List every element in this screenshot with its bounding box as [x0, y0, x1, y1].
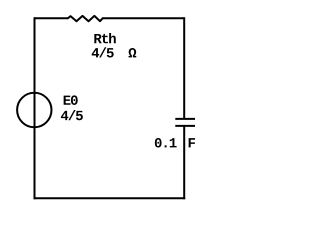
capacitor C top plate	[175, 118, 195, 120]
label E0	[64, 95, 78, 105]
wire bottom (return path)	[34, 197, 186, 199]
wire right upper vertical (capacitor top lead)	[183, 17, 185, 118]
label Rth	[94, 33, 115, 43]
wire left vertical (source branch)	[34, 17, 36, 199]
label 0.1 (capacitor value)	[155, 138, 177, 148]
wire right lower vertical (capacitor bottom lead)	[183, 126, 185, 199]
label 4/5 (source value)	[61, 110, 83, 120]
label F (capacitor unit)	[189, 138, 195, 147]
wire top-left segment (from source branch to Rth)	[35, 17, 69, 19]
voltage source E0	[17, 93, 51, 127]
wire top-right segment (from Rth to capacitor branch)	[103, 17, 184, 19]
resistor Rth	[68, 16, 103, 21]
capacitor C bottom plate	[175, 125, 195, 127]
label 4/5 Ω (resistor value)	[92, 47, 137, 57]
